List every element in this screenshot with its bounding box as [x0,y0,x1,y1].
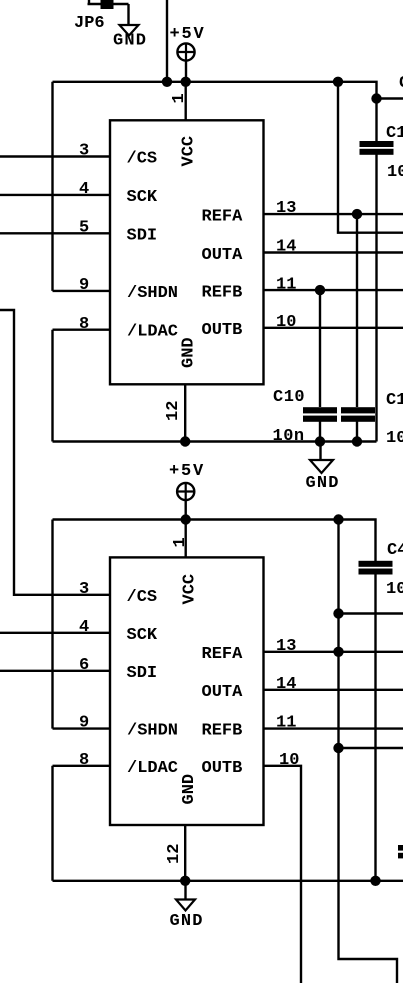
svg-text:GND: GND [180,774,199,805]
junction [180,436,190,446]
wire pin 14 OUTA net 2 [264,689,403,691]
svg-text:12: 12 [164,401,183,421]
svg-text:REFB: REFB [202,722,243,741]
capacitor C10 [303,407,337,441]
svg-text:11: 11 [276,714,296,733]
wire pin 3 /CS2 net from left [0,310,110,595]
wire +5V to /SHDN drop 2 [51,520,53,729]
power +5V [177,43,195,82]
wire REFA to C11 drop [356,214,358,407]
wire VCC pin 1 [184,520,186,558]
wire +5V rail 2 [53,520,376,562]
svg-text:9: 9 [79,276,89,295]
wire +5V to /SHDN drop [51,82,53,291]
svg-text:11: 11 [276,275,296,294]
svg-text:/SHDN: /SHDN [127,284,178,303]
svg-text:/LDAC: /LDAC [127,759,178,778]
wire pin 4 SCK net [0,632,110,634]
wire pin 5 SDI net [0,232,110,234]
wire branch to right edge A [339,612,403,614]
wire VCC pin 1 [184,82,186,121]
wire pin 14 OUTA net [264,251,403,253]
svg-text:SCK: SCK [127,626,158,645]
svg-text:12: 12 [165,844,184,864]
wire pin 10 OUTB net [264,327,403,329]
svg-text:JP6: JP6 [74,14,105,33]
svg-text:8: 8 [79,751,89,770]
wire pin 10 OUTB net 2 (jog down) [264,766,302,983]
junction [371,93,381,103]
svg-text:VCC: VCC [180,136,199,167]
wire GND net [53,440,377,442]
svg-text:10: 10 [387,163,403,182]
wire pin 6 SDI net [0,670,110,672]
wire GND pin 12 [184,384,186,441]
wire +5V rail [53,82,403,99]
wire pin 13 REFA net 2 [264,651,403,653]
junction [315,436,325,446]
svg-text:5: 5 [79,219,89,238]
svg-text:C1: C1 [386,391,403,410]
junction [333,514,343,524]
svg-text:/LDAC: /LDAC [127,323,178,342]
wire REFB to C10 drop [319,290,321,407]
wire branch to right edge B [339,747,403,749]
ground (below U2) [176,881,195,911]
capacitor C4 [359,561,393,881]
junction [181,514,191,524]
svg-text:OUTA: OUTA [202,246,244,265]
wire pin 11 REFB net [264,289,403,291]
svg-text:4: 4 [79,180,89,199]
wire pin 8 /LDAC stub [53,765,111,767]
IC U1 box [110,120,264,384]
svg-text:REFB: REFB [202,283,243,302]
junction [333,743,343,753]
wire JP6 to ground [127,4,129,25]
svg-text:1: 1 [171,537,190,547]
svg-text:+5V: +5V [170,25,206,44]
wire pin 3 /CS net [0,155,110,157]
wire pin 4 SCK net [0,194,110,196]
svg-text:REFA: REFA [202,208,244,227]
svg-text:10: 10 [279,751,299,770]
capacitor C1 [360,99,394,155]
junction [180,876,190,886]
svg-text:REFA: REFA [202,645,244,664]
svg-text:OUTB: OUTB [202,321,243,340]
svg-text:3: 3 [79,580,89,599]
wire pin 9 /SHDN stub [53,290,111,292]
wire C1 to GND drop [375,154,377,441]
svg-text:10: 10 [276,313,296,332]
svg-text:14: 14 [276,238,296,257]
svg-text:C: C [399,74,403,93]
svg-text:OUTB: OUTB [202,759,243,778]
ground (JP6) [120,25,139,36]
wire pin 11 REFB net 2 [264,727,403,729]
svg-text:/CS: /CS [127,588,158,607]
svg-text:13: 13 [276,199,296,218]
wire pin 9 /SHDN stub [53,727,111,729]
wire +5V branch to edge [338,82,403,233]
svg-text:8: 8 [79,315,89,334]
svg-text:OUTA: OUTA [202,683,244,702]
svg-text:1: 1 [170,93,189,103]
ground (C10/C11) [310,442,333,474]
svg-text:/CS: /CS [127,150,158,169]
svg-text:C10: C10 [273,388,305,407]
wire +5V branch 2 (down to bottom edge) [339,520,398,983]
svg-text:GND: GND [306,474,340,493]
IC U2 box [110,557,264,825]
junction [315,285,325,295]
svg-text:GND: GND [113,32,147,51]
svg-text:3: 3 [79,142,89,161]
svg-text:/SHDN: /SHDN [127,722,178,741]
svg-text:6: 6 [79,656,89,675]
capacitor C11 [341,407,375,441]
junction [162,77,172,87]
svg-text:13: 13 [276,637,296,656]
svg-text:C4: C4 [387,541,403,560]
svg-text:GND: GND [170,912,204,931]
junction [181,77,191,87]
junction [333,77,343,87]
wire GND pin 12 [184,825,186,881]
svg-text:C1: C1 [386,124,403,143]
wire /LDAC to GND drop [51,330,53,442]
svg-text:10n: 10n [273,427,305,446]
wire GND net 2 [53,880,403,882]
svg-text:10: 10 [386,429,403,448]
junction [333,647,343,657]
junction [370,876,380,886]
svg-text:SDI: SDI [127,227,158,246]
capacitor (cut at right edge) [398,845,403,858]
svg-text:GND: GND [180,337,199,368]
junction [333,608,343,618]
svg-text:9: 9 [79,714,89,733]
svg-text:10n: 10n [386,580,403,599]
jumper JP6 [88,0,129,9]
svg-text:4: 4 [79,618,89,637]
svg-text:SDI: SDI [127,664,158,683]
wire /LDAC to GND drop 2 [51,766,53,881]
svg-text:VCC: VCC [181,574,200,605]
junction [352,209,362,219]
svg-text:14: 14 [276,675,296,694]
wire pin 13 REFA net [264,213,403,215]
wire pin 8 /LDAC stub [53,329,111,331]
power +5V (second) [177,482,195,519]
junction [352,436,362,446]
wire JP6 pin to +5V rail [166,0,168,82]
svg-text:SCK: SCK [127,188,158,207]
svg-text:+5V: +5V [169,462,205,481]
